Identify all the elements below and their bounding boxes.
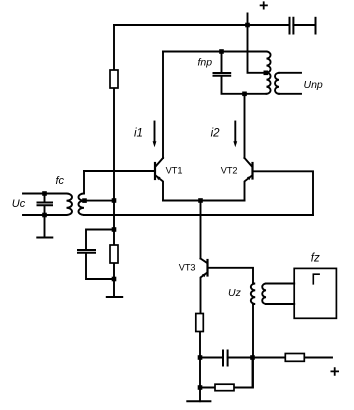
svg-text:VT1: VT1 (166, 166, 183, 176)
svg-text:Uc: Uc (12, 198, 26, 210)
svg-text:VT3: VT3 (179, 262, 196, 272)
svg-text:VT2: VT2 (221, 166, 238, 176)
svg-text:fc: fc (56, 175, 65, 187)
svg-text:Uz: Uz (228, 287, 242, 299)
svg-text:Unp: Unp (304, 79, 323, 91)
svg-text:fz: fz (311, 253, 320, 265)
svg-text:i2: i2 (211, 127, 221, 139)
svg-text:fnp: fnp (198, 57, 213, 69)
svg-text:i1: i1 (134, 127, 143, 139)
